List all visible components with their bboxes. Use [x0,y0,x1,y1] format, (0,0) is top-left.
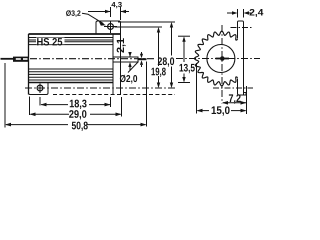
end view: centre lead end [220,56,225,61]
label diam 2,0 with leader [120,75,137,84]
left lead wire [1,58,14,60]
side view: top-right mounting tab [96,21,121,34]
end view: vertical centre line [221,25,223,104]
end view: finned housing outline [194,31,237,86]
right lead sleeve (outlined) [113,57,138,62]
extension lines right of side view [115,22,176,127]
main centre line through body (dash-dot) [30,58,155,60]
bottom dimension 29,0 [30,97,122,117]
side view: bottom-left mounting tab [29,83,49,95]
dimension 13,5 [178,36,190,82]
side view: bottom fin lines [29,69,114,80]
mounting hole top right, diam 3,2 [104,21,117,34]
side view: resistor body outline [29,25,121,95]
side view: top fin lines [29,38,114,45]
end view: inner core circle [207,45,235,73]
dimension 2,1 sleeve thickness (rotated) [128,52,131,70]
HS 25 type label on body [36,38,65,45]
tick arrows at right wire [140,52,143,67]
hidden mounting plane (dashed) [53,94,175,96]
bottom dimension 50,8 overall [5,63,147,128]
right lead wire diam 2,0 [138,58,147,60]
dimension 28,0 [170,22,173,88]
left lead crimp sleeve [13,57,29,62]
dimension 2,4 bracket thickness [227,9,251,18]
label diam 3,2 with leader [66,10,80,17]
end view: top tab hole centre line [231,27,254,29]
end view: bottom tab hole centre line [213,87,253,89]
bottom dimension 18,3 [40,97,111,107]
dimension 19,8 [157,27,160,88]
end view: mounting bracket plate [238,21,247,95]
centre line of mounting holes (dash-dot) [25,87,175,89]
dimension 15,0 [197,63,247,114]
end view: horizontal centre line [176,58,260,60]
dimension 7,2 [222,101,247,105]
mounting hole bottom left [37,84,43,94]
dimension 4,3 top right [88,7,129,20]
